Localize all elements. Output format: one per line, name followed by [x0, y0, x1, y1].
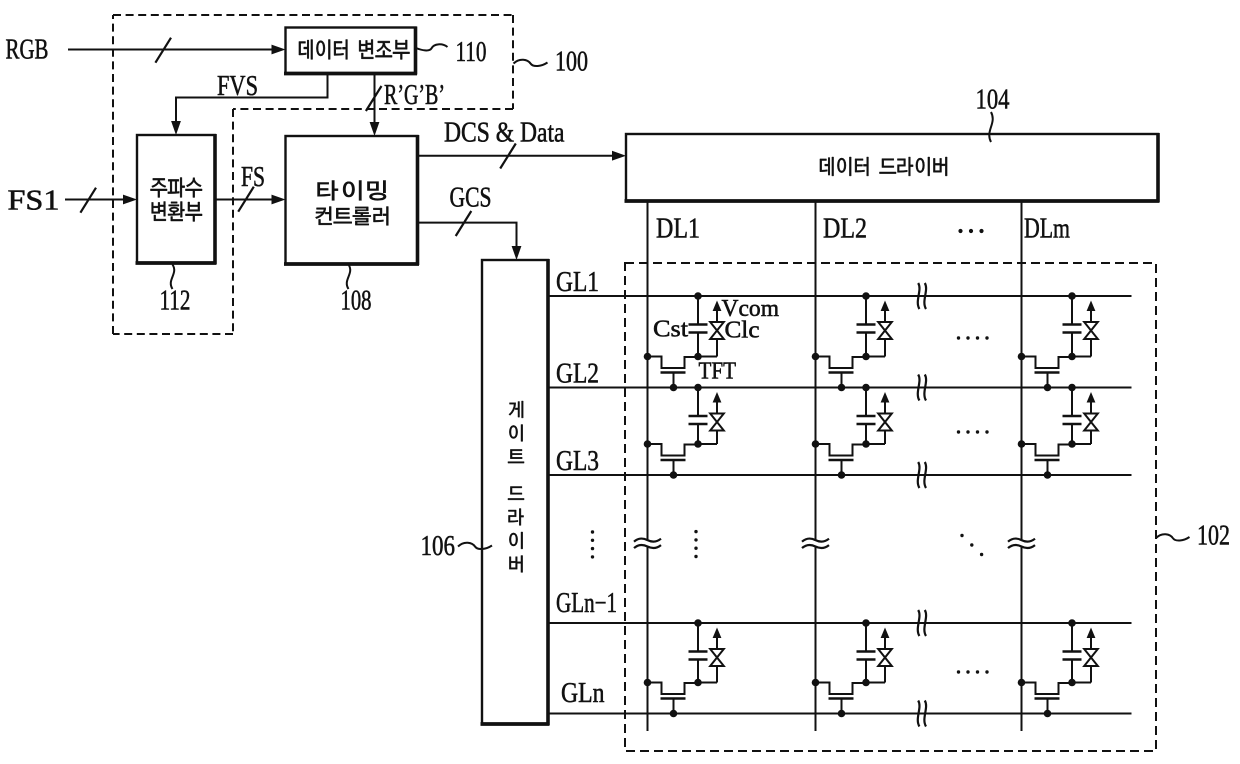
break symbol on GLn-1	[918, 610, 920, 636]
gate line GL2	[548, 387, 1132, 389]
wire FS from block 112 to block 108	[215, 199, 273, 201]
liquid crystal capacitor Clc cell (1022,475)	[1072, 392, 1098, 444]
svg-text:GCS: GCS	[450, 183, 492, 214]
liquid crystal capacitor Clc cell (816,475)	[866, 392, 892, 444]
block 106 gate driver (vertical text)	[481, 259, 550, 725]
liquid crystal capacitor Clc cell (648,475)	[698, 392, 724, 444]
svg-text:112: 112	[160, 285, 191, 317]
liquid crystal capacitor Clc cell (816,388)	[866, 301, 892, 357]
break symbol on GL3	[918, 462, 920, 488]
storage capacitor Cst cell (648,714)	[689, 619, 708, 682]
svg-text:FS: FS	[241, 162, 265, 193]
break symbol on GLn	[918, 701, 920, 727]
bus slash on FS wire	[238, 187, 254, 212]
break symbol on GL1	[918, 283, 920, 309]
data line DLm	[1021, 200, 1023, 731]
TFT cell (648,714)	[644, 679, 698, 718]
reference 102 squiggle	[1156, 534, 1190, 540]
reference 112 squiggle	[171, 265, 174, 290]
TFT cell (816,714)	[812, 679, 866, 718]
reference 108 squiggle	[347, 265, 350, 290]
liquid crystal capacitor Clc cell (648,714)	[698, 628, 724, 683]
data line DL1	[647, 200, 649, 731]
liquid crystal capacitor Clc cell (1022,388)	[1072, 301, 1098, 357]
bus slash on GCS wire	[456, 211, 472, 236]
wire FVS from block 110 to block 112	[176, 74, 328, 123]
storage capacitor Cst cell (648,475)	[689, 384, 708, 444]
svg-text:FS1: FS1	[8, 186, 60, 217]
gate line GLn	[548, 713, 1132, 715]
horizontal ellipsis row1	[957, 336, 989, 339]
liquid crystal capacitor Clc cell (1022,714)	[1072, 628, 1098, 683]
pixel node dot (648,475)	[694, 440, 702, 448]
vertical ellipsis left of panel	[591, 530, 594, 558]
reference 110 squiggle	[416, 44, 448, 50]
TFT cell (1022,475)	[1018, 440, 1072, 479]
svg-text:DL2: DL2	[823, 214, 867, 245]
TFT cell (816,475)	[812, 440, 866, 479]
svg-text:Clc: Clc	[725, 318, 760, 344]
svg-text:100: 100	[555, 46, 588, 78]
TFT cell (648,388)	[644, 353, 698, 392]
svg-text:DL1: DL1	[656, 214, 700, 245]
break symbol on DLm	[1019, 540, 1023, 546]
svg-text:TFT: TFT	[699, 359, 737, 385]
dashed boundary 100	[113, 15, 513, 334]
storage capacitor Cst cell (1022,714)	[1063, 619, 1082, 682]
break symbol on DL2	[813, 540, 817, 546]
svg-text:GL3: GL3	[556, 446, 599, 477]
storage capacitor Cst cell (1022,388)	[1063, 292, 1082, 356]
pixel node dot (816,475)	[862, 440, 870, 448]
wire FS1 to block 112	[65, 199, 124, 201]
vertical ellipsis in DL1 cell column	[694, 530, 697, 558]
svg-text:DLm: DLm	[1024, 214, 1070, 245]
pixel node dot (648,388)	[694, 353, 702, 361]
wire DCS & Data from block 108 to block 104	[418, 155, 614, 157]
reference 100 squiggle	[514, 60, 548, 66]
storage capacitor Cst cell (816,475)	[857, 384, 876, 444]
block 112 frequency conversion unit	[136, 134, 217, 264]
liquid crystal capacitor Clc cell (816,714)	[866, 628, 892, 683]
block 104 data driver	[625, 133, 1160, 202]
svg-text:GLn−1: GLn−1	[556, 588, 617, 619]
storage capacitor Cst cell (816,714)	[857, 619, 876, 682]
svg-text:Cst: Cst	[653, 317, 688, 343]
gate line GL1	[548, 295, 1132, 297]
svg-text:108: 108	[341, 285, 372, 317]
dashed panel boundary 102	[625, 263, 1156, 751]
horizontal ellipsis row3	[957, 670, 989, 673]
TFT cell (1022,714)	[1018, 679, 1072, 718]
storage capacitor Cst cell (648,388)	[689, 292, 708, 356]
svg-text:FVS: FVS	[217, 71, 258, 102]
TFT cell (816,388)	[812, 353, 866, 392]
svg-text:DCS & Data: DCS & Data	[444, 118, 565, 149]
wire GCS from block 108 to block 106	[418, 223, 517, 247]
svg-text:GL2: GL2	[556, 359, 599, 390]
gate line GL3	[548, 474, 1132, 476]
reference 106 squiggle	[458, 543, 492, 549]
bus slash on DCS & Data wire	[500, 144, 516, 169]
data line DL2	[815, 200, 817, 731]
bus slash on FS1 wire	[80, 188, 96, 213]
diagonal ellipsis	[960, 534, 983, 556]
liquid crystal capacitor Clc cell (648,388)	[698, 301, 724, 357]
horizontal ellipsis row2	[957, 430, 989, 433]
bus slash on R'G'B' wire	[366, 86, 382, 111]
svg-text:106: 106	[421, 530, 456, 562]
pixel node dot (648,714)	[694, 679, 702, 687]
wire RGB to block 110	[68, 49, 273, 51]
block 110 data modulation unit	[284, 27, 417, 75]
block 108 timing controller	[284, 135, 419, 265]
pixel node dot (816,714)	[862, 679, 870, 687]
break symbol on DL1	[645, 540, 649, 546]
pixel node dot (1022,388)	[1068, 353, 1076, 361]
wire R'G'B' from block 110 to block 108	[374, 74, 376, 124]
pixel node dot (1022,714)	[1068, 679, 1076, 687]
svg-text:104: 104	[976, 84, 1010, 116]
TFT cell (1022,388)	[1018, 353, 1072, 392]
svg-text:GLn: GLn	[561, 678, 605, 709]
svg-text:GL1: GL1	[556, 267, 599, 298]
pixel node dot (816,388)	[862, 353, 870, 361]
svg-text:RGB: RGB	[6, 35, 49, 66]
pixel node dot (1022,475)	[1068, 440, 1076, 448]
storage capacitor Cst cell (1022,475)	[1063, 384, 1082, 444]
svg-text:110: 110	[456, 36, 487, 68]
bus slash on RGB wire	[155, 38, 171, 63]
ellipsis between DL2 and DLm	[958, 229, 983, 233]
TFT cell (648,475)	[644, 440, 698, 479]
gate line GLn-1	[548, 622, 1132, 624]
reference 104 squiggle	[989, 112, 992, 142]
break symbol on GL2	[918, 375, 920, 401]
svg-text:102: 102	[1197, 520, 1230, 552]
storage capacitor Cst cell (816,388)	[857, 292, 876, 356]
svg-text:R’G’B’: R’G’B’	[384, 80, 445, 111]
